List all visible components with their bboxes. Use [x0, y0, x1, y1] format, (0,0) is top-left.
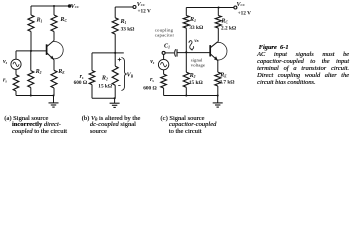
transistor Q1 (a): [46, 44, 48, 55]
svg-text:VCC: VCC: [71, 4, 80, 10]
wire vs to base (a): [15, 51, 17, 59]
svg-text:R2: R2: [35, 69, 42, 75]
resistor rs (a): [13, 75, 19, 91]
wire RE bottom lead (c): [217, 86, 219, 96]
node Vcc terminal (a): [68, 5, 71, 8]
wire R2 bottom lead (c): [185, 87, 187, 95]
figure description line 2: [257, 58, 349, 65]
source vs (a): [11, 59, 21, 69]
node Vcc terminal (c): [234, 6, 237, 9]
node input terminal (c): [162, 51, 165, 54]
svg-text:rs: rs: [150, 77, 154, 83]
svg-text:capacitor: capacitor: [155, 33, 175, 38]
node Vcc terminal (b): [133, 6, 136, 9]
svg-text:R1: R1: [120, 19, 127, 25]
svg-text:15 kΩ: 15 kΩ: [189, 80, 203, 86]
svg-text:2.7 kΩ: 2.7 kΩ: [219, 80, 234, 86]
junction bottom rail / R2 (a): [30, 94, 32, 96]
wire input node to C1 (c): [165, 52, 174, 54]
wire top rail (c): [186, 7, 234, 9]
wire RC to collector (a): [53, 32, 55, 41]
junction top rail / RC branch (c): [218, 6, 220, 8]
svg-text:VCC: VCC: [237, 2, 246, 8]
wire base (a): [16, 50, 47, 52]
resistor R2 (c): [183, 72, 189, 87]
junction bottom rail / ground (b): [114, 97, 116, 99]
resistor R1 (c): [183, 16, 189, 29]
wire emitter to RE (c): [217, 61, 219, 73]
source vs (c): [158, 59, 168, 69]
capacitor C1 (c): [175, 49, 176, 56]
wire top rail (a): [31, 5, 69, 7]
svg-text:600 Ω: 600 Ω: [143, 85, 157, 91]
wire vs to rs (c): [163, 70, 165, 74]
svg-text:RC: RC: [220, 18, 228, 24]
svg-text:VB: VB: [127, 72, 134, 79]
signal squiggle vB (c): [189, 41, 194, 50]
wire R2 bottom lead (b): [114, 85, 116, 98]
svg-text:voltage: voltage: [191, 63, 205, 68]
wire R1 bottom lead (c): [185, 28, 187, 52]
wire node B stub right (b): [115, 52, 124, 54]
ground (a): [53, 96, 55, 103]
svg-text:RE: RE: [219, 72, 227, 78]
svg-text:RE: RE: [57, 69, 65, 75]
transistor Q1 (c): [209, 45, 211, 56]
wire C1 to base (c): [177, 52, 210, 54]
wire top rail (b): [115, 6, 133, 8]
wire R2 top lead (b): [114, 53, 116, 66]
resistor RC (c): [215, 16, 221, 29]
resistor RE (c): [215, 72, 221, 86]
wire RE bottom lead (a): [53, 88, 55, 96]
svg-text:33 kΩ: 33 kΩ: [121, 27, 135, 33]
wire rs to bottom rail (a): [15, 91, 17, 96]
wire bottom rail (a): [16, 95, 54, 97]
svg-text:C1: C1: [164, 44, 170, 50]
wire rs top lead (b): [91, 53, 93, 71]
wire R2 top lead (a): [30, 51, 32, 71]
svg-text:R2: R2: [101, 76, 108, 82]
wire node B to rs (b): [92, 52, 115, 54]
svg-text:R1: R1: [36, 17, 43, 23]
label plus VB (b): [118, 59, 122, 61]
svg-text:vB: vB: [194, 39, 198, 44]
junction base node (c): [185, 51, 187, 53]
wire rs bottom lead (c): [163, 88, 165, 96]
svg-text:R1: R1: [189, 17, 196, 23]
figure description line 5: [257, 79, 349, 86]
resistor RE (a): [51, 70, 57, 88]
svg-text:15 kΩ: 15 kΩ: [98, 83, 112, 89]
junction bottom rail / R2 (c): [185, 94, 187, 96]
figure title Figure 6-1: [259, 44, 351, 51]
wire R1 bottom lead (b): [114, 34, 116, 53]
figure description line 4: [257, 72, 349, 79]
figure description line 1: [257, 51, 349, 58]
wire R1 bottom lead (a): [30, 32, 32, 51]
caption (a): [4, 116, 67, 136]
junction bottom rail / RE ground (c): [217, 94, 219, 96]
svg-text:+12 V: +12 V: [238, 10, 252, 16]
svg-text:RC: RC: [59, 17, 67, 23]
brace VB (b): [121, 58, 126, 91]
junction base wire / R1 R2 (a): [30, 50, 32, 52]
resistor R1 (b): [112, 18, 118, 34]
resistor R2 (b): [112, 66, 118, 85]
wire RC to collector (c): [217, 28, 219, 42]
ground (b): [114, 98, 116, 103]
wire vs top lead (c): [163, 54, 165, 59]
wire bottom rail (b): [92, 97, 115, 99]
svg-text:vs: vs: [3, 59, 8, 65]
wire emitter to RE (a): [53, 60, 55, 70]
wire R2 top lead (c): [185, 52, 187, 72]
wire RC top lead (c): [217, 8, 219, 16]
caption (c): [160, 116, 216, 136]
resistor RC (a): [51, 15, 57, 32]
wire R1 top lead (a): [30, 6, 32, 15]
svg-text:+12 V: +12 V: [138, 9, 152, 15]
svg-text:R2: R2: [189, 73, 196, 79]
junction bottom rail / RE ground (a): [52, 94, 54, 96]
svg-text:rs: rs: [3, 78, 7, 84]
junction node B (b): [114, 52, 116, 54]
wire R1 top lead (b): [114, 7, 116, 18]
wire R2 bottom lead (a): [30, 88, 32, 96]
ground (c): [217, 96, 219, 103]
figure description line 3: [257, 65, 349, 72]
svg-text:33 kΩ: 33 kΩ: [189, 25, 203, 31]
resistor rs (b): [89, 71, 95, 85]
resistor rs (c): [161, 74, 167, 88]
wire rs bottom lead (b): [91, 85, 93, 99]
junction top rail / RC branch (a): [53, 5, 55, 7]
wire vs to rs (a): [15, 69, 17, 74]
svg-text:rs: rs: [80, 74, 84, 80]
resistor R2 (a): [28, 71, 34, 88]
svg-text:2.2 kΩ: 2.2 kΩ: [221, 26, 236, 32]
svg-text:600 Ω: 600 Ω: [74, 80, 88, 86]
caption (b): [82, 116, 141, 136]
wire bottom rail (c): [164, 95, 218, 97]
label minus VB (b): [118, 85, 120, 87]
svg-text:VCC: VCC: [137, 2, 146, 8]
wire RC top lead (a): [53, 6, 55, 15]
resistor R1 (a): [28, 15, 34, 32]
wire R1 top lead (c): [185, 8, 187, 16]
svg-text:vs: vs: [150, 59, 155, 65]
